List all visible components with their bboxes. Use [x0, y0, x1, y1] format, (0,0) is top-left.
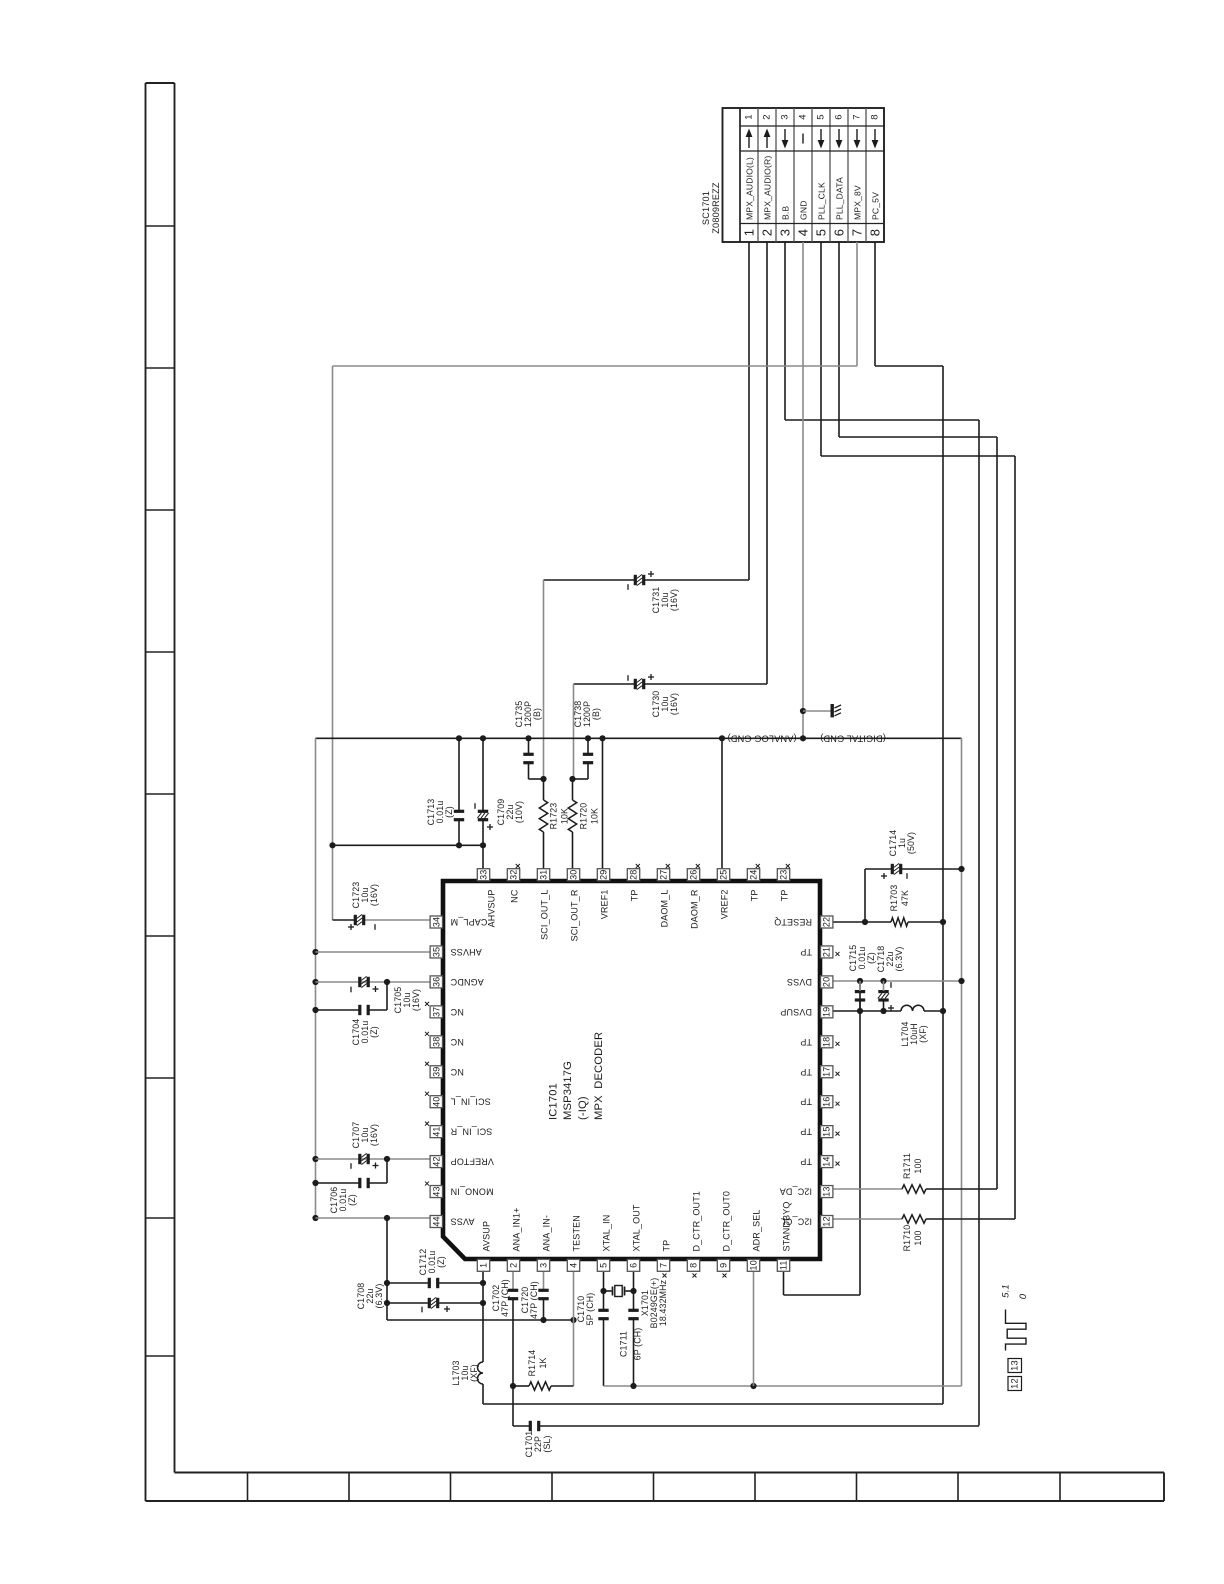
svg-text:24: 24	[749, 870, 759, 880]
connector pin 3 number (top row)	[780, 114, 791, 119]
svg-text:8: 8	[689, 1263, 699, 1268]
svg-text:TP: TP	[800, 1097, 812, 1107]
connector SC1701 Z0809REZZ table	[723, 108, 885, 242]
svg-text:4: 4	[798, 114, 809, 119]
wire MPX_8V pin7 route left and down	[333, 242, 858, 920]
pin 13 I2C_DA (right)	[780, 1186, 833, 1198]
pin 32 NC (top)	[507, 864, 520, 903]
pin 39 NC (left)	[425, 1062, 464, 1078]
svg-text:TP: TP	[662, 1240, 672, 1252]
svg-text:21: 21	[822, 947, 832, 957]
connector pin 6 number (top row)	[834, 114, 845, 119]
pin 2 ANA_IN1+ (bottom)	[507, 1208, 521, 1272]
wire PC_5V pin8 route right and down	[875, 242, 943, 1404]
capacitor C1720 47P CH	[520, 1272, 549, 1320]
pin 31 SCI_OUT_L (top)	[537, 869, 549, 940]
resistor R1703 47K	[833, 885, 946, 927]
pin 12 I2C_CL (right)	[781, 1216, 833, 1228]
svg-text:(6.3V): (6.3V)	[894, 947, 904, 972]
svg-text:TP: TP	[800, 1157, 812, 1167]
svg-text:(Z): (Z)	[436, 1256, 446, 1268]
svg-text:VREFTOP: VREFTOP	[451, 1157, 494, 1167]
svg-text:PC_5V: PC_5V	[871, 192, 881, 220]
svg-text:30: 30	[569, 870, 579, 880]
wire AVSUP pin1 down	[482, 1272, 484, 1362]
svg-text:XTAL_IN: XTAL_IN	[602, 1215, 612, 1252]
pin 37 NC (left)	[425, 1002, 464, 1018]
svg-text:DAOM_L: DAOM_L	[660, 890, 670, 928]
svg-text:R1710: R1710	[902, 1225, 912, 1252]
svg-text:(10V): (10V)	[514, 801, 524, 823]
svg-text:5: 5	[599, 1263, 609, 1268]
pin 7 TP (bottom)	[657, 1240, 671, 1278]
pin 22 RESETQ (right)	[774, 916, 833, 928]
svg-text:(Z): (Z)	[866, 952, 876, 964]
svg-text:47P (CH): 47P (CH)	[529, 1281, 539, 1319]
svg-text:AVSS: AVSS	[451, 1217, 475, 1227]
capacitor C1714 1u 50V	[865, 830, 965, 922]
svg-text:31: 31	[539, 870, 549, 880]
svg-text:1: 1	[744, 114, 755, 119]
capacitor C1731 10u 16V	[544, 571, 750, 613]
svg-text:33: 33	[479, 870, 489, 880]
svg-text:8: 8	[868, 229, 883, 236]
svg-text:TP: TP	[800, 1037, 812, 1047]
svg-text:9: 9	[719, 1263, 729, 1268]
connector pin 7 signal name MPX_8V	[853, 185, 863, 220]
svg-text:(Z): (Z)	[369, 1026, 379, 1038]
capacitor C1712 0.01u Z	[384, 1249, 486, 1289]
connector pin 4 number (top row)	[798, 114, 809, 119]
pin 34 CAPL_M (left)	[430, 916, 487, 928]
svg-text:(16V): (16V)	[369, 884, 379, 906]
svg-text:TP: TP	[780, 890, 790, 902]
capacitor C1738 1200P B	[573, 701, 602, 779]
op-amp/IC IC1701 MSP3417G MPX DECODER body	[443, 881, 820, 1259]
connector pin 2 number (top row)	[762, 114, 773, 119]
pin 9 D_CTR_OUT0 (bottom)	[717, 1191, 731, 1278]
pin 43 MONO_IN (left)	[425, 1182, 494, 1198]
pin 11 STANDBYQ (bottom)	[777, 1201, 791, 1271]
svg-text:40: 40	[431, 1097, 441, 1107]
svg-text:B.B: B.B	[781, 206, 791, 220]
svg-text:5: 5	[816, 114, 827, 119]
pin 20 DVSS (right)	[787, 976, 833, 988]
svg-text:AHVSS: AHVSS	[451, 947, 482, 957]
pin 21 TP (right)	[800, 946, 839, 958]
svg-text:(ANALOG GND): (ANALOG GND)	[727, 733, 796, 743]
pin 8 D_CTR_OUT1 (bottom)	[687, 1191, 701, 1278]
svg-text:(16V): (16V)	[411, 989, 421, 1011]
pin 25 VREF2 (top)	[717, 869, 729, 920]
svg-text:GND: GND	[799, 200, 809, 220]
connector pin 3 number (bottom row)	[778, 229, 793, 236]
pin 23 TP (top)	[777, 864, 790, 901]
svg-text:PLL_DATA: PLL_DATA	[835, 177, 845, 220]
svg-text:ANA_IN-: ANA_IN-	[542, 1215, 552, 1252]
svg-text:ANA_IN1+: ANA_IN1+	[512, 1208, 522, 1252]
svg-text:D_CTR_OUT0: D_CTR_OUT0	[722, 1191, 732, 1252]
svg-text:C1711: C1711	[619, 1331, 629, 1357]
connector pin 5 signal name PLL_CLK	[817, 182, 827, 220]
svg-text:32: 32	[509, 870, 519, 880]
svg-text:10: 10	[749, 1260, 759, 1270]
svg-text:(6.3V): (6.3V)	[374, 1284, 384, 1309]
svg-text:Z0809REZZ: Z0809REZZ	[711, 182, 721, 234]
connector pin 8 number (top row)	[870, 114, 881, 119]
svg-text:AVSUP: AVSUP	[482, 1221, 492, 1252]
wire SCI_OUT_R net down	[573, 684, 575, 779]
svg-text:NC: NC	[510, 889, 520, 903]
capacitor C1701 22P SL	[513, 1421, 979, 1458]
junction dots on ground rail	[456, 735, 806, 741]
svg-text:(Z): (Z)	[444, 806, 454, 818]
wire STANDBYQ pin11 to DVSS	[784, 981, 861, 1295]
svg-text:10K: 10K	[560, 808, 570, 824]
svg-text:4: 4	[796, 229, 811, 236]
waveform level label 0	[1018, 1293, 1029, 1299]
svg-text:(16V): (16V)	[669, 589, 679, 611]
pin 10 ADR_SEL (bottom)	[747, 1209, 761, 1271]
capacitor C1715 0.01u Z	[848, 945, 876, 1011]
svg-text:TESTEN: TESTEN	[572, 1215, 582, 1251]
capacitor C1730 10u 16V	[574, 674, 768, 717]
wire AVSUP feed from PC_5V	[483, 1403, 943, 1405]
node digital gnd label	[820, 733, 886, 743]
crystal X1701 B0249GE 18.432MHz	[600, 1272, 668, 1328]
svg-text:5.1: 5.1	[1001, 1284, 1012, 1298]
svg-text:IC1701: IC1701	[548, 1083, 560, 1120]
capacitor C1710 5P CH	[576, 1293, 609, 1386]
connector pin 6 number (bottom row)	[832, 229, 847, 236]
connector pin 6 signal name PLL_DATA	[835, 177, 845, 220]
connector pin 5 number (bottom row)	[814, 229, 829, 236]
svg-text:8: 8	[870, 114, 881, 119]
svg-text:42: 42	[431, 1156, 441, 1166]
svg-text:3: 3	[778, 229, 793, 236]
svg-text:1: 1	[742, 229, 757, 236]
svg-text:(SL): (SL)	[542, 1435, 552, 1452]
svg-text:6: 6	[834, 114, 845, 119]
svg-text:13: 13	[822, 1186, 832, 1196]
svg-text:7: 7	[852, 114, 863, 119]
svg-text:17: 17	[822, 1067, 832, 1077]
wire VREF2 pin25 up to ground rail	[721, 738, 723, 869]
svg-text:NC: NC	[450, 1037, 464, 1047]
svg-text:ADR_SEL: ADR_SEL	[752, 1209, 762, 1251]
svg-text:STANDBYQ: STANDBYQ	[782, 1201, 792, 1251]
svg-text:7: 7	[659, 1263, 669, 1268]
connector pin 2 signal name MPX_AUDIO(R)	[763, 156, 773, 220]
wire MPX_AUDIO(L) pin1 down to C1731	[748, 242, 750, 580]
svg-text:(16V): (16V)	[369, 1124, 379, 1146]
svg-text:29: 29	[599, 870, 609, 880]
wire PLL_DATA pin6 route right and down	[839, 242, 997, 1189]
svg-text:(DIGITAL GND): (DIGITAL GND)	[820, 733, 886, 743]
connector pin 7 number (bottom row)	[850, 229, 865, 236]
waveform level label 5.1	[1001, 1284, 1012, 1298]
connector pin 5 number (top row)	[816, 114, 827, 119]
page border left strip	[146, 83, 175, 1501]
svg-text:0: 0	[1018, 1293, 1029, 1299]
svg-text:14: 14	[822, 1156, 832, 1166]
pin 27 DAOM_L (top)	[657, 864, 670, 927]
wire TESTEN pin4 down	[573, 1272, 575, 1386]
wire AVSS pin44 row	[312, 1215, 430, 1221]
svg-text:R1723: R1723	[549, 803, 559, 830]
pin 24 TP (top)	[747, 864, 760, 901]
resistor R1720 10K	[568, 776, 599, 869]
svg-text:36: 36	[431, 977, 441, 987]
svg-text:22: 22	[822, 917, 832, 927]
waveform pin reference box 13	[1008, 1359, 1022, 1373]
svg-text:RESETQ: RESETQ	[774, 917, 812, 927]
svg-text:D_CTR_OUT1: D_CTR_OUT1	[692, 1191, 702, 1252]
svg-text:SCI_OUT_R: SCI_OUT_R	[570, 889, 580, 941]
capacitor C1705 10u 16V	[312, 976, 430, 1013]
connector direction arrows	[746, 129, 879, 149]
svg-text:5: 5	[814, 229, 829, 236]
svg-text:41: 41	[431, 1126, 441, 1136]
capacitor C1707 10u 16V	[312, 1122, 430, 1169]
svg-text:100: 100	[913, 1158, 923, 1173]
inductor L1704 10uH XF	[833, 1005, 946, 1046]
pin 38 NC (left)	[425, 1032, 464, 1048]
svg-text:38: 38	[431, 1037, 441, 1047]
pin 3 ANA_IN- (bottom)	[537, 1215, 551, 1271]
page border bottom bar	[146, 1473, 1165, 1502]
svg-text:MONO_IN: MONO_IN	[451, 1187, 494, 1197]
pin 41 SCI_IN_R (left)	[425, 1122, 492, 1138]
svg-text:(B): (B)	[532, 708, 542, 720]
svg-text:2: 2	[762, 114, 773, 119]
connector pin 1 signal name MPX_AUDIO(L)	[745, 157, 755, 220]
svg-text:20: 20	[822, 977, 832, 987]
svg-text:15: 15	[822, 1126, 832, 1136]
wire GND pin4 down to analog ground line	[802, 242, 804, 738]
wire DVSS pin20 to digital ground	[833, 978, 965, 984]
pin 6 XTAL_OUT (bottom)	[627, 1204, 641, 1271]
svg-text:CAPL_M: CAPL_M	[451, 917, 488, 927]
svg-text:VREF2: VREF2	[720, 890, 730, 920]
capacitor C1708 22u 6.3V	[356, 1283, 486, 1313]
svg-text:12: 12	[822, 1216, 832, 1226]
connector pin 7 number (top row)	[852, 114, 863, 119]
svg-text:47K: 47K	[900, 890, 910, 906]
svg-text:R1711: R1711	[902, 1153, 912, 1179]
capacitor C1723 10u 16V	[333, 882, 431, 930]
svg-text:100: 100	[913, 1230, 923, 1245]
svg-text:(Z): (Z)	[347, 1194, 357, 1206]
capacitor C1735 1200P B	[514, 701, 544, 779]
wire PLL_CLK pin5 route right and down	[821, 242, 1015, 1219]
svg-text:16: 16	[822, 1097, 832, 1107]
connector pin 3 signal name B.B	[781, 206, 791, 220]
svg-text:18: 18	[822, 1037, 832, 1047]
svg-text:43: 43	[431, 1186, 441, 1196]
connector pin 4 number (bottom row)	[796, 229, 811, 236]
pin 40 SCI_IN_L (left)	[425, 1092, 491, 1108]
inductor L1703 10u XF	[451, 1360, 483, 1404]
svg-text:XTAL_OUT: XTAL_OUT	[632, 1204, 642, 1251]
svg-text:SCI_IN_R: SCI_IN_R	[450, 1127, 492, 1137]
pin 36 AGNDC (left)	[430, 976, 484, 988]
pin 35 AHVSS (left)	[430, 946, 482, 958]
svg-text:6P (CH): 6P (CH)	[633, 1328, 643, 1361]
svg-text:2: 2	[509, 1263, 519, 1268]
I2C clock waveform symbol	[1006, 1310, 1027, 1351]
svg-text:2: 2	[760, 229, 775, 236]
svg-text:25: 25	[719, 870, 729, 880]
svg-text:44: 44	[431, 1216, 441, 1226]
svg-text:PLL_CLK: PLL_CLK	[817, 182, 827, 220]
svg-text:34: 34	[431, 917, 441, 927]
wire SCI_OUT_L net down	[543, 580, 545, 779]
svg-text:1: 1	[479, 1263, 489, 1268]
wire VREF1 pin29 up to ground rail	[602, 738, 604, 869]
svg-text:DAOM_R: DAOM_R	[690, 889, 700, 929]
svg-text:VREF1: VREF1	[600, 890, 610, 920]
svg-text:19: 19	[822, 1007, 832, 1017]
svg-text:(XF): (XF)	[469, 1364, 479, 1382]
capacitor C1718 22u 6.3V	[876, 946, 904, 1011]
svg-text:6: 6	[629, 1263, 639, 1268]
svg-text:I2C_DA: I2C_DA	[780, 1187, 812, 1197]
analog/digital ground rail	[316, 738, 962, 1386]
resistor R1714 1K	[510, 1350, 574, 1391]
svg-text:(50V): (50V)	[906, 832, 916, 854]
digital ground return line	[604, 1383, 962, 1389]
pin 16 TP (right)	[800, 1096, 839, 1108]
svg-text:TP: TP	[630, 890, 640, 902]
connector pin 2 number (bottom row)	[760, 229, 775, 236]
capacitor C1704 0.01u Z	[312, 982, 387, 1045]
wire AHVSUP node horizontal	[329, 842, 486, 869]
pin 29 VREF1 (top)	[597, 869, 609, 920]
svg-text:3: 3	[780, 114, 791, 119]
svg-text:12: 12	[1010, 1378, 1020, 1389]
svg-text:(B): (B)	[591, 708, 601, 720]
wire AVSS net down and right to TESTEN	[387, 1218, 577, 1323]
svg-text:18.432MHz: 18.432MHz	[658, 1280, 668, 1326]
svg-text:4: 4	[569, 1263, 579, 1268]
wire MPX_AUDIO(R) pin2 down to C1730	[766, 242, 768, 684]
svg-text:13: 13	[1010, 1360, 1020, 1371]
pin 5 XTAL_IN (bottom)	[597, 1215, 611, 1272]
capacitor C1706 0.01u Z	[312, 1159, 387, 1213]
wire ADR_SEL pin10 down	[753, 1272, 755, 1386]
svg-text:TP: TP	[800, 1127, 812, 1137]
svg-text:28: 28	[629, 870, 639, 880]
resistor R1710 100	[833, 1215, 1015, 1252]
pin 4 TESTEN (bottom)	[567, 1215, 581, 1271]
svg-text:SCI_IN_L: SCI_IN_L	[451, 1097, 491, 1107]
connector pin 4 signal name GND	[799, 200, 809, 220]
capacitor C1711 6P CH	[619, 1309, 643, 1386]
pin 1 AVSUP (bottom)	[477, 1221, 491, 1271]
pin 42 VREFTOP (left)	[430, 1156, 494, 1168]
svg-text:DVSS: DVSS	[787, 977, 812, 987]
pin 14 TP (right)	[800, 1156, 839, 1168]
svg-text:6: 6	[832, 229, 847, 236]
svg-text:(-IQ): (-IQ)	[577, 1096, 589, 1120]
svg-text:23: 23	[779, 870, 789, 880]
connector pin 8 number (bottom row)	[868, 229, 883, 236]
svg-text:SCI_OUT_L: SCI_OUT_L	[540, 890, 550, 940]
svg-text:NC: NC	[450, 1007, 464, 1017]
svg-text:R1714: R1714	[527, 1350, 537, 1377]
svg-text:35: 35	[431, 947, 441, 957]
wire AHVSS pin35 to analog ground	[312, 949, 430, 955]
svg-text:37: 37	[431, 1007, 441, 1017]
svg-text:DVSUP: DVSUP	[780, 1007, 812, 1017]
svg-text:MPX_AUDIO(R): MPX_AUDIO(R)	[763, 156, 773, 220]
svg-text:MSP3417G: MSP3417G	[562, 1061, 574, 1120]
resistor R1711 100	[833, 1153, 997, 1193]
svg-text:10K: 10K	[590, 808, 600, 824]
connector pin 1 number (top row)	[744, 114, 755, 119]
pin 44 AVSS (left)	[430, 1216, 474, 1228]
svg-text:R1703: R1703	[889, 885, 899, 912]
svg-text:AGNDC: AGNDC	[450, 977, 484, 987]
svg-text:11: 11	[779, 1260, 789, 1270]
svg-text:(XF): (XF)	[918, 1025, 928, 1043]
svg-text:SC1701: SC1701	[701, 191, 711, 225]
pin 18 TP (right)	[800, 1036, 839, 1048]
svg-text:47P (CH): 47P (CH)	[500, 1279, 510, 1317]
svg-text:R1720: R1720	[579, 803, 589, 830]
svg-text:TP: TP	[800, 947, 812, 957]
svg-text:5P (CH): 5P (CH)	[585, 1293, 595, 1326]
chassis ground symbol	[800, 704, 841, 717]
connector designator SC1701 Z0809REZZ	[701, 182, 721, 234]
svg-text:3: 3	[539, 1263, 549, 1268]
capacitor C1713 0.01u Z	[426, 738, 464, 845]
svg-text:(16V): (16V)	[669, 693, 679, 715]
pin 19 DVSUP (right)	[780, 1006, 833, 1018]
pin 15 TP (right)	[800, 1126, 839, 1138]
svg-text:26: 26	[689, 870, 699, 880]
svg-text:NC: NC	[450, 1067, 464, 1077]
svg-text:27: 27	[659, 870, 669, 880]
svg-text:MPX_8V: MPX_8V	[853, 185, 863, 220]
pin 30 SCI_OUT_R (top)	[567, 869, 579, 942]
svg-text:7: 7	[850, 229, 865, 236]
svg-text:1K: 1K	[538, 1357, 548, 1368]
svg-text:MPX_AUDIO(L): MPX_AUDIO(L)	[745, 157, 755, 220]
pin 26 DAOM_R (top)	[687, 864, 700, 929]
wire B.B pin3 route right and down	[785, 242, 979, 1426]
svg-text:39: 39	[431, 1067, 441, 1077]
node analog gnd label	[727, 733, 796, 743]
svg-text:TP: TP	[750, 890, 760, 902]
capacitor C1702 47P CH	[491, 1272, 518, 1426]
pin 17 TP (right)	[800, 1066, 839, 1078]
svg-text:TP: TP	[800, 1067, 812, 1077]
connector pin 8 signal name PC_5V	[871, 192, 881, 220]
pin 28 TP (top)	[627, 864, 640, 901]
capacitor C1709 22u 10V	[475, 738, 524, 845]
resistor R1723 10K	[539, 776, 569, 869]
waveform pin reference box 12	[1008, 1377, 1022, 1391]
svg-text:MPX DECODER: MPX DECODER	[593, 1032, 605, 1120]
connector pin 1 number (bottom row)	[742, 229, 757, 236]
pin 33 AHVSUP (top)	[477, 869, 496, 928]
